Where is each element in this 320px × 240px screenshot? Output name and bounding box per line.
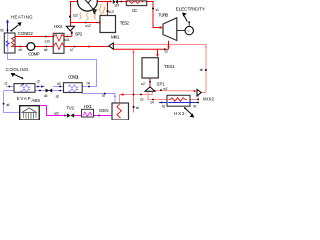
svg-text:MIX1: MIX1 [111, 35, 120, 40]
svg-text:EVAP: EVAP [17, 96, 31, 101]
svg-text:s8: s8 [44, 48, 47, 52]
svg-text:h5: h5 [0, 28, 3, 32]
svg-text:s9: s9 [18, 48, 21, 52]
svg-text:s6: s6 [200, 68, 203, 72]
svg-text:TURB: TURB [158, 12, 168, 17]
svg-text:c1: c1 [4, 82, 7, 86]
svg-text:CC: CC [132, 8, 138, 13]
svg-text:s4': s4' [163, 87, 168, 91]
svg-text:s13': s13' [108, 10, 114, 14]
svg-text:HX1: HX1 [84, 104, 93, 109]
svg-text:SP1: SP1 [157, 81, 166, 86]
svg-text:s5: s5 [136, 106, 139, 110]
svg-text:s12: s12 [73, 14, 78, 18]
svg-text:a4: a4 [6, 103, 9, 107]
svg-text:MIX2: MIX2 [203, 97, 215, 102]
svg-text:TES2: TES2 [120, 20, 130, 25]
svg-text:SP2: SP2 [75, 32, 83, 37]
svg-text:a2: a2 [56, 94, 59, 98]
svg-text:TES1: TES1 [164, 64, 175, 69]
svg-text:s4: s4 [150, 101, 153, 105]
svg-text:a12: a12 [54, 112, 59, 116]
svg-text:s2': s2' [141, 82, 146, 86]
svg-text:COND1: COND1 [68, 75, 80, 80]
svg-text:h3: h3 [57, 82, 60, 86]
svg-text:COMP: COMP [28, 52, 40, 57]
svg-text:HX2: HX2 [174, 111, 185, 116]
svg-text:s10: s10 [45, 39, 50, 43]
svg-text:c2: c2 [37, 80, 40, 84]
svg-text:HX3: HX3 [54, 24, 63, 29]
svg-text:h1: h1 [162, 105, 165, 109]
svg-text:GEN: GEN [99, 108, 109, 113]
svg-text:TV2: TV2 [66, 106, 74, 111]
svg-text:~: ~ [187, 29, 190, 34]
svg-text:h2: h2 [193, 104, 196, 108]
svg-text:a3: a3 [44, 94, 47, 98]
svg-text:s2: s2 [165, 50, 168, 54]
svg-text:s11: s11 [64, 38, 69, 42]
svg-text:s14: s14 [114, 3, 119, 7]
svg-text:ELECTRICITY: ELECTRICITY [176, 6, 206, 12]
svg-text:HEATING: HEATING [11, 15, 33, 20]
svg-text:a1: a1 [102, 93, 105, 97]
svg-text:s7: s7 [70, 48, 73, 52]
svg-text:COND2: COND2 [18, 31, 34, 36]
svg-text:COOLING: COOLING [6, 67, 29, 72]
svg-text:ABS: ABS [31, 98, 40, 103]
svg-text:h4: h4 [87, 81, 90, 85]
svg-text:s3: s3 [140, 97, 143, 101]
svg-text:s12': s12' [85, 24, 91, 28]
